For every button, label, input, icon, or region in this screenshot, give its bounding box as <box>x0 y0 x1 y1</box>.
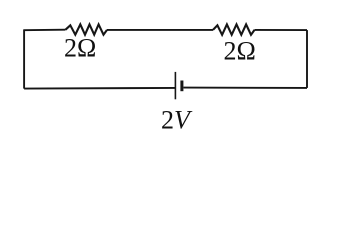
battery B1 short thick plate <box>180 81 183 92</box>
resistor R1 zigzag <box>66 24 108 34</box>
wire top-left segment <box>23 29 65 32</box>
svg-text:2Ω: 2Ω <box>224 36 256 65</box>
wire top middle segment <box>107 29 213 31</box>
resistor R2 zigzag <box>213 24 255 34</box>
wire bottom-left segment <box>24 87 175 90</box>
svg-text:2Ω: 2Ω <box>64 34 96 63</box>
wire top-right segment <box>255 29 308 31</box>
wire bottom-right segment <box>184 87 308 89</box>
wire right vertical <box>306 30 308 88</box>
wire left vertical <box>23 30 25 88</box>
svg-text:2V: 2V <box>161 106 193 135</box>
battery B1 long thin plate <box>174 72 176 99</box>
